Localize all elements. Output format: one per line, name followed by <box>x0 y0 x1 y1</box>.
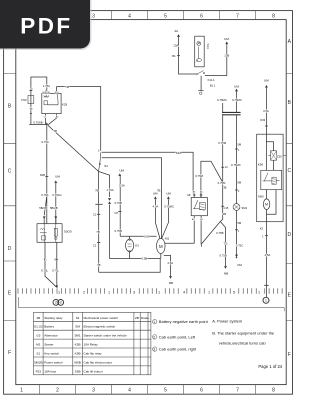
wire Z20 branch <box>266 142 273 171</box>
svg-text:13B: 13B <box>224 53 229 57</box>
table row 4 <box>36 343 98 347</box>
relay K11 box <box>191 198 207 216</box>
svg-text:0.75B: 0.75B <box>115 229 122 233</box>
svg-text:0.75B: 0.75B <box>114 201 121 205</box>
switch S13 box <box>195 36 205 67</box>
svg-text:0.75MC: 0.75MC <box>232 98 242 102</box>
svg-text:6: 6 <box>200 13 203 19</box>
wire SM1 chain from busbar <box>236 115 238 203</box>
svg-text:2: 2 <box>83 290 85 294</box>
table row 3 <box>36 334 127 338</box>
svg-text:0.75MC: 0.75MC <box>217 98 227 102</box>
key switch symbol <box>40 224 47 243</box>
svg-text:UM: UM <box>237 263 242 267</box>
svg-text:0.75MC: 0.75MC <box>231 163 241 167</box>
svg-text:1: 1 <box>208 290 210 294</box>
starter M1 <box>157 238 166 253</box>
solenoid SM1 <box>233 204 240 211</box>
relay group K50 box <box>257 134 283 222</box>
svg-text:Z20: Z20 <box>277 154 282 158</box>
ruler ticks <box>18 288 282 294</box>
svg-text:5M: 5M <box>237 221 242 225</box>
svg-text:5B/2B: 5B/2B <box>39 206 47 210</box>
svg-text:7B: 7B <box>53 129 57 133</box>
switch S4 <box>99 153 101 172</box>
relay K11 coil <box>199 203 205 210</box>
relay K50 coil <box>272 177 276 184</box>
wire bus S1A <box>102 152 194 193</box>
svg-text:1.75A: 1.75A <box>106 188 113 192</box>
wire G3 bottom stub <box>129 252 131 258</box>
wire inside K50 <box>265 134 267 170</box>
svg-text:3B: 3B <box>223 212 226 216</box>
svg-text:5M1: 5M1 <box>75 334 81 338</box>
connector arrow UM5 <box>235 89 237 91</box>
svg-text:5B/2B: 5B/2B <box>50 206 58 210</box>
ruler tick row <box>19 297 285 311</box>
svg-text:B. The starter equipment under: B. The starter equipment under the <box>212 330 275 335</box>
svg-text:Starter: Starter <box>44 343 53 347</box>
wire S4 to earth chain <box>98 171 100 204</box>
wire S13 to earth <box>200 76 202 91</box>
svg-text:87D: 87D <box>55 92 59 94</box>
svg-text:3: 3 <box>92 13 95 19</box>
svg-text:0.75B: 0.75B <box>219 254 226 258</box>
wire bus 7B to M1 <box>102 158 162 239</box>
diode Z20 <box>271 151 277 160</box>
svg-text:4: 4 <box>128 13 131 19</box>
svg-text:5: 5 <box>233 290 235 294</box>
wire 1.75A branch S4 <box>99 172 110 198</box>
svg-text:C: C <box>287 168 291 174</box>
svg-text:K50: K50 <box>258 162 264 166</box>
svg-text:G3: G3 <box>135 244 139 248</box>
svg-text:K29: K29 <box>62 102 68 106</box>
busbar splice <box>222 112 241 114</box>
svg-text:2: 2 <box>56 388 59 394</box>
node junction triangle <box>46 123 48 125</box>
svg-text:1: 1 <box>158 290 160 294</box>
svg-text:7: 7 <box>236 388 239 394</box>
svg-text:Mechanical power switch: Mechanical power switch <box>84 316 119 320</box>
wire power switch feed UM <box>55 183 57 224</box>
svg-text:C1: C1 <box>93 244 97 248</box>
wire F53 top loop <box>31 77 47 96</box>
svg-text:M: M <box>159 244 163 249</box>
earth point circle 1 <box>263 297 269 303</box>
svg-text:Key switch: Key switch <box>44 351 59 355</box>
svg-text:Cab lift button: Cab lift button <box>84 369 103 373</box>
svg-text:K33: K33 <box>260 118 265 122</box>
svg-text:0.75AC: 0.75AC <box>52 193 61 197</box>
svg-text:D: D <box>287 232 291 238</box>
svg-text:1: 1 <box>58 290 60 294</box>
svg-text:S1: S1 <box>76 316 80 320</box>
svg-text:7B: 7B <box>95 189 99 193</box>
svg-text:1.75A: 1.75A <box>43 84 50 88</box>
pin arrows into switch <box>43 217 57 220</box>
svg-text:NO-OM: NO-OM <box>42 92 49 94</box>
svg-text:K5B: K5B <box>75 351 81 355</box>
earth T bar <box>264 284 269 286</box>
svg-text:B1: B1 <box>172 54 176 58</box>
svg-text:Cab flip electromotor: Cab flip electromotor <box>84 360 113 364</box>
svg-text:Cab flip relay: Cab flip relay <box>84 351 103 355</box>
wires below power switch <box>45 242 57 287</box>
svg-text:7: 7 <box>236 13 239 19</box>
connector arrow UM8 <box>265 85 267 87</box>
svg-text:4.5A: 4.5A <box>265 253 271 257</box>
pin ticks below <box>44 258 58 260</box>
svg-text:0.75AB: 0.75AB <box>33 120 42 124</box>
wire UM 0.75MC drop <box>162 199 169 238</box>
svg-text:4.5A: 4.5A <box>263 109 269 113</box>
svg-text:62B: 62B <box>40 173 45 177</box>
connector arrow UM7 <box>235 255 237 257</box>
svg-text:UM: UM <box>153 191 158 195</box>
earth point circle 4b <box>58 300 64 306</box>
relay K29 box <box>42 94 61 114</box>
connector arrow 4A <box>177 34 179 36</box>
svg-text:UM: UM <box>166 191 171 195</box>
svg-text:Starter switch under the vehic: Starter switch under the vehicle <box>84 334 127 338</box>
svg-text:UM: UM <box>119 168 124 172</box>
connector tick C15 <box>221 205 224 207</box>
connector arrow UM2 <box>154 197 156 199</box>
alternator G3 <box>126 239 134 251</box>
svg-text:7B: 7B <box>97 263 101 267</box>
svg-text:0.75MC: 0.75MC <box>164 205 174 209</box>
svg-text:Electromagnetic switch: Electromagnetic switch <box>84 325 116 329</box>
wire 3B chain down <box>220 182 222 221</box>
PDF badge <box>0 0 92 50</box>
svg-text:F53: F53 <box>21 98 27 102</box>
svg-text:4.5A: 4.5A <box>167 261 173 265</box>
fuse F53 <box>28 96 34 104</box>
svg-text:0.75C: 0.75C <box>236 243 243 247</box>
wire left leg down to junction <box>222 115 224 182</box>
svg-text:1: 1 <box>258 290 260 294</box>
ground S13 <box>198 90 203 92</box>
wire fuse to bottom rail <box>30 104 32 125</box>
svg-text:2: 2 <box>55 301 57 305</box>
svg-text:MB: MB <box>224 272 228 276</box>
svg-text:D: D <box>8 246 12 252</box>
wire bottom rail of K29 loop <box>29 124 48 126</box>
table row 1 <box>36 316 149 320</box>
wire tick below fuse <box>29 108 32 110</box>
wire UM K33 feed <box>265 88 267 134</box>
wire M50 return loop <box>267 190 276 215</box>
svg-text:0.5B: 0.5B <box>142 257 148 261</box>
wire earth rail bottom <box>99 259 161 273</box>
table row 7 <box>36 369 103 373</box>
right coordinate band dividers <box>286 74 292 321</box>
svg-text:M: M <box>265 203 268 207</box>
svg-text:5: 5 <box>164 13 167 19</box>
svg-text:3: 3 <box>60 301 62 305</box>
connector arrow UM4 <box>226 42 228 44</box>
svg-text:S5B: S5B <box>75 369 81 373</box>
svg-text:M1: M1 <box>165 237 169 241</box>
svg-text:10A Relay: 10A Relay <box>84 343 99 347</box>
connector tick K33 <box>265 125 268 127</box>
relay K50 inner box <box>261 170 282 189</box>
wire 0.75MC right leg to busbar <box>236 92 238 113</box>
svg-text:Cab earth point, right: Cab earth point, right <box>159 347 197 352</box>
svg-text:S1A: S1A <box>176 151 182 155</box>
svg-text:3: 3 <box>153 348 155 352</box>
svg-text:C2: C2 <box>224 242 228 246</box>
wire G3 top stub <box>129 236 131 238</box>
relay K11 pin stubs <box>194 193 201 223</box>
svg-text:5B/2B: 5B/2B <box>34 360 42 364</box>
wire SM1 down <box>236 210 238 254</box>
earth lead arrowhead <box>55 285 57 287</box>
svg-text:UM: UM <box>55 174 60 178</box>
svg-text:Cab earth point, Left: Cab earth point, Left <box>159 334 196 339</box>
svg-text:2: 2 <box>153 335 155 339</box>
wire tick 62B <box>45 176 48 178</box>
svg-text:Power switch: Power switch <box>44 360 63 364</box>
svg-text:0.5A: 0.5A <box>119 184 125 188</box>
svg-text:Alternator: Alternator <box>44 334 57 338</box>
connector tick C1 <box>97 242 100 244</box>
svg-text:0.75M: 0.75M <box>218 141 226 145</box>
svg-text:5M: 5M <box>237 180 242 184</box>
connector tick C8 <box>118 210 121 212</box>
svg-text:0.75L: 0.75L <box>52 269 59 273</box>
relay K50 contact <box>263 173 272 182</box>
motor M50 <box>263 199 269 210</box>
pin ticks K11 <box>193 194 203 196</box>
svg-text:0.75M: 0.75M <box>218 181 226 185</box>
relay K29 coil <box>44 96 49 98</box>
wire M1 right to K11 <box>165 219 194 243</box>
svg-text:S13: S13 <box>206 44 210 50</box>
wire tick above fuse <box>29 90 32 92</box>
notes: earth point legend <box>153 319 283 370</box>
svg-text:4: 4 <box>128 388 131 394</box>
wire stub to frame <box>283 155 286 157</box>
svg-text:Starting relay: Starting relay <box>44 316 63 320</box>
svg-text:Battery negative earth point: Battery negative earth point <box>159 319 209 324</box>
svg-text:ZB: ZB <box>135 316 139 320</box>
table row 6 <box>34 360 112 364</box>
switch element <box>55 224 57 243</box>
legend table <box>34 312 151 374</box>
schematic small labels <box>21 29 282 305</box>
bottom coordinate band dividers <box>39 385 255 395</box>
relay K29 pin stubs top <box>46 87 57 94</box>
svg-text:8: 8 <box>272 388 275 394</box>
wire UM drop to top rail <box>119 176 121 236</box>
svg-text:4A: 4A <box>174 29 178 33</box>
svg-text:F: F <box>288 352 291 358</box>
svg-text:4.5A: 4.5A <box>153 205 159 209</box>
wire diagonal to K11 A1 <box>202 222 221 244</box>
earth point circle 4a <box>53 300 59 306</box>
svg-text:6: 6 <box>200 388 203 394</box>
svg-text:0.75B: 0.75B <box>216 231 223 235</box>
connector tick C2b <box>224 242 227 244</box>
border frame inner <box>16 20 286 385</box>
svg-text:C8: C8 <box>115 211 119 215</box>
svg-text:M5B: M5B <box>74 360 80 364</box>
svg-text:5: 5 <box>164 388 167 394</box>
svg-text:UM: UM <box>224 37 229 41</box>
svg-text:0.75M: 0.75M <box>195 174 203 178</box>
relay K29 contact <box>48 94 58 105</box>
svg-text:K11 A: K11 A <box>208 78 215 82</box>
svg-text:C: C <box>8 169 12 175</box>
svg-text:B1.1: B1.1 <box>210 84 216 88</box>
wire 0.75A down to power switch <box>46 125 48 224</box>
svg-text:F: F <box>8 350 11 356</box>
svg-text:Diode: Diode <box>141 316 149 320</box>
wire M50 to earth <box>266 190 268 286</box>
svg-text:S1: S1 <box>36 351 40 355</box>
table row 2 <box>34 325 116 329</box>
connector arrow MB <box>169 276 171 278</box>
svg-text:G1,G2: G1,G2 <box>34 325 43 329</box>
switch S13 blade <box>197 41 201 59</box>
svg-text:Battery: Battery <box>44 325 54 329</box>
svg-text:1: 1 <box>108 290 110 294</box>
wire K50 coil stub <box>276 180 279 182</box>
svg-text:0.75L: 0.75L <box>41 269 48 273</box>
wire diagonal K29 to S4 <box>48 125 99 171</box>
wire tick B1 <box>177 55 180 57</box>
relay K11 contact <box>193 200 199 209</box>
svg-text:YB: YB <box>65 85 69 89</box>
connector arrow UM <box>119 174 121 176</box>
svg-text:vehicle,electrical turns cab: vehicle,electrical turns cab <box>219 340 267 345</box>
svg-text:SM1: SM1 <box>241 206 247 210</box>
wire to 0.5B rail <box>109 205 111 259</box>
svg-text:50/20: 50/20 <box>64 229 72 233</box>
wire UM feed 13B <box>205 44 227 75</box>
svg-text:1: 1 <box>153 320 155 324</box>
svg-text:UM: UM <box>264 78 269 82</box>
wire branch to C2 MB <box>220 222 225 267</box>
connector tick K2 <box>265 235 268 237</box>
inline connector bar <box>95 203 102 205</box>
wire YB to bus <box>57 87 101 151</box>
wire 0.5A top rail <box>120 235 156 237</box>
svg-text:PDF: PDF <box>20 14 72 39</box>
connector tick C2 <box>97 213 100 215</box>
svg-text:13A: 13A <box>173 44 178 48</box>
wire 0.75MC left leg to busbar <box>222 103 224 112</box>
svg-text:SM: SM <box>75 325 80 329</box>
svg-text:F53: F53 <box>36 369 42 373</box>
connector pair arrows <box>108 198 111 204</box>
connector tick 5M3 <box>235 229 238 231</box>
wire 0.5B rail <box>110 258 161 260</box>
connector tick 5M1 <box>235 148 238 150</box>
svg-text:0.75A: 0.75A <box>41 193 48 197</box>
svg-text:A. Power system: A. Power system <box>212 319 243 324</box>
svg-text:1: 1 <box>265 299 267 303</box>
svg-text:1: 1 <box>20 388 23 394</box>
switch K11A contacts <box>196 73 198 75</box>
svg-text:3: 3 <box>92 388 95 394</box>
svg-text:3: 3 <box>133 290 135 294</box>
wire connector dash <box>30 113 32 115</box>
connector tick 5M2 <box>235 189 238 191</box>
svg-text:4B: 4B <box>36 316 40 320</box>
svg-text:0.5A: 0.5A <box>144 234 150 238</box>
node dot <box>236 257 237 258</box>
svg-text:G3: G3 <box>36 334 40 338</box>
svg-text:M50: M50 <box>258 195 264 199</box>
wire M1 bottom to MB earth lead <box>161 254 171 276</box>
svg-text:K5B: K5B <box>75 343 81 347</box>
wire 0.75M branch to K11 <box>201 161 223 197</box>
connector arrow UM6 <box>55 181 57 183</box>
svg-text:C15: C15 <box>224 206 229 210</box>
svg-text:C2: C2 <box>93 213 97 217</box>
svg-text:10A fuse: 10A fuse <box>44 369 56 373</box>
svg-text:7B: 7B <box>96 230 100 234</box>
wire K11 A1 down <box>200 224 203 247</box>
svg-text:K2: K2 <box>260 226 264 230</box>
svg-text:8: 8 <box>272 13 275 19</box>
wire earth chain down <box>98 205 100 272</box>
svg-text:MB: MB <box>169 281 173 285</box>
relay K29 pin stubs bottom <box>46 114 57 125</box>
svg-text:0.75A: 0.75A <box>41 140 48 144</box>
connector arrow UM3 <box>167 197 169 199</box>
svg-text:3B: 3B <box>223 185 226 189</box>
left coordinate band dividers <box>4 74 16 321</box>
svg-text:5M: 5M <box>237 142 242 146</box>
svg-text:S4: S4 <box>104 164 108 168</box>
wire 4A feed <box>179 37 197 74</box>
svg-text:UM: UM <box>234 85 239 89</box>
connector tick 12 <box>221 166 224 168</box>
connector arrow MB2 <box>224 266 226 268</box>
power switch 50/20 box <box>37 224 62 243</box>
svg-text:Page 1 of 24: Page 1 of 24 <box>258 364 282 369</box>
svg-text:M1: M1 <box>36 343 41 347</box>
wire UM 4.5A drop <box>155 199 160 238</box>
table row 5 <box>36 351 102 355</box>
svg-text:A8: A8 <box>187 193 191 197</box>
svg-text:4: 4 <box>183 290 185 294</box>
